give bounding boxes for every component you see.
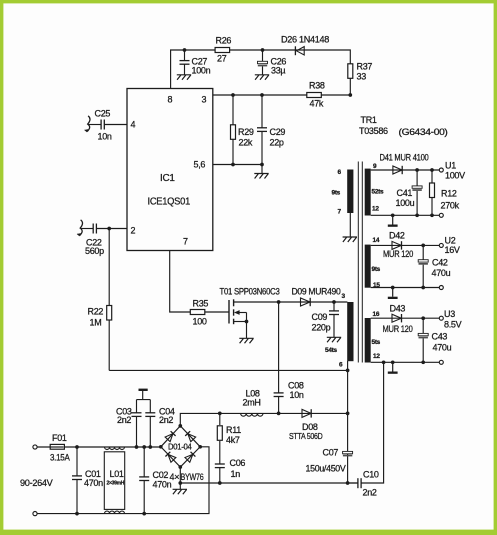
svg-text:D41 MUR 4100: D41 MUR 4100 <box>380 153 429 163</box>
svg-text:C42: C42 <box>432 258 448 268</box>
wire primary pin6 down <box>347 361 349 483</box>
svg-text:8.5V: 8.5V <box>444 320 462 330</box>
wire pin7 gate drive <box>170 251 229 313</box>
resistor R22 <box>88 229 112 371</box>
wire primary return <box>109 369 347 371</box>
svg-text:22p: 22p <box>270 138 284 148</box>
svg-text:5,6: 5,6 <box>194 160 206 170</box>
capacitor C07 <box>306 448 353 485</box>
svg-text:10n: 10n <box>98 132 112 142</box>
node U1 100V <box>445 161 465 181</box>
diode D26 1N4148 <box>281 35 329 56</box>
svg-text:C07: C07 <box>323 448 339 458</box>
transformer secondary 52ts <box>365 163 384 216</box>
inductor L08 <box>241 389 263 417</box>
svg-text:470u: 470u <box>432 268 451 278</box>
svg-text:R11: R11 <box>226 425 241 435</box>
svg-text:R26: R26 <box>216 36 232 46</box>
svg-text:D26 1N4148: D26 1N4148 <box>281 35 329 45</box>
svg-text:IC1: IC1 <box>160 173 175 184</box>
node junction drain/C08 <box>277 300 281 304</box>
svg-text:U3: U3 <box>444 309 455 319</box>
node junction pin2/R22 <box>107 227 111 231</box>
wire output2 bottom <box>371 287 440 289</box>
node U2 16V <box>445 236 460 256</box>
svg-text:90-264V: 90-264V <box>20 478 53 488</box>
terminal input L <box>33 445 37 449</box>
ground of output3 <box>388 360 398 373</box>
terminal U2 plus <box>439 243 443 247</box>
svg-text:3: 3 <box>202 95 207 105</box>
transformer TR1 core <box>358 115 448 363</box>
node U3 8.5V <box>444 309 462 330</box>
terminal U2 minus <box>439 286 443 290</box>
capacitor C27 <box>180 48 211 75</box>
wire output3 top <box>371 317 440 319</box>
wire output3 bottom <box>371 361 440 363</box>
svg-text:C29: C29 <box>270 127 286 137</box>
svg-text:100: 100 <box>193 317 207 327</box>
svg-text:4×: 4× <box>170 472 180 482</box>
svg-text:4k7: 4k7 <box>226 435 240 445</box>
svg-text:MUR 120: MUR 120 <box>383 249 413 259</box>
wire drain rail <box>234 301 348 303</box>
svg-text:C25: C25 <box>95 109 111 119</box>
resistor R11 <box>217 412 241 445</box>
wire C03-C04 link <box>137 391 151 400</box>
svg-text:10n: 10n <box>290 390 304 400</box>
svg-text:D01-04: D01-04 <box>168 443 192 452</box>
svg-text:ICE1QS01: ICE1QS01 <box>148 197 191 208</box>
chassis node at C25 <box>85 116 91 132</box>
svg-text:470u: 470u <box>433 343 452 353</box>
capacitor C03 <box>116 400 142 449</box>
svg-text:C10: C10 <box>363 470 379 480</box>
capacitor C08 <box>274 302 304 415</box>
op-amp IC1 ICE1QS01 box <box>127 89 213 251</box>
svg-text:D42: D42 <box>389 231 405 241</box>
diode D43 MUR 120 <box>383 304 413 335</box>
transformer secondary 5ts <box>365 311 381 363</box>
wire snubber rail <box>180 413 347 426</box>
node junction return/output3 <box>382 360 386 364</box>
ground of C09 <box>327 337 341 342</box>
svg-text:16: 16 <box>373 311 380 318</box>
transformer primary winding 54ts <box>325 293 354 369</box>
svg-text:2: 2 <box>131 226 136 236</box>
wire output2 top <box>371 244 440 246</box>
capacitor C41 <box>396 168 423 217</box>
svg-text:14: 14 <box>373 237 380 244</box>
frame <box>0 0 497 3</box>
svg-text:47k: 47k <box>310 99 324 109</box>
resistor R35 <box>190 299 208 327</box>
svg-text:L01: L01 <box>110 469 124 479</box>
diode D41 MUR 4100 <box>380 153 429 175</box>
svg-text:12: 12 <box>372 206 379 213</box>
svg-text:R22: R22 <box>88 307 104 317</box>
svg-text:9ts: 9ts <box>372 266 381 273</box>
transistor T01 SPP03N60C3 <box>220 287 280 339</box>
wire mains bottom <box>37 447 209 514</box>
transformer secondary 9ts <box>365 237 381 289</box>
terminal U1 minus <box>439 213 443 217</box>
svg-text:D09 MUR490: D09 MUR490 <box>292 287 341 297</box>
terminal U3 plus <box>439 316 443 320</box>
terminal input N <box>33 511 37 515</box>
node junction rail/pin6 <box>346 412 350 416</box>
resistor R12 <box>430 168 460 217</box>
capacitor C04 <box>145 400 175 449</box>
fuse F01 3.15A <box>50 433 70 463</box>
capacitor C43 <box>418 316 451 364</box>
ground of T01 source <box>239 338 253 343</box>
svg-text:C06: C06 <box>230 458 246 468</box>
svg-text:2n2: 2n2 <box>117 415 131 425</box>
wire output1 top <box>371 169 440 171</box>
capacitor C01 <box>72 445 103 515</box>
svg-text:D43: D43 <box>390 304 406 314</box>
svg-text:5ts: 5ts <box>372 339 381 346</box>
svg-text:U2: U2 <box>445 236 456 246</box>
svg-text:22k: 22k <box>239 138 253 148</box>
capacitor C25 <box>89 109 128 142</box>
capacitor C10 <box>348 470 379 498</box>
resistor R26 <box>215 36 231 64</box>
transformer aux winding 9ts <box>332 169 354 216</box>
svg-text:C09: C09 <box>312 312 328 322</box>
diode D09 MUR490 <box>292 287 341 307</box>
svg-text:100u: 100u <box>396 198 415 208</box>
svg-text:C02: C02 <box>153 470 169 480</box>
capacitor C29 <box>257 93 285 173</box>
svg-text:C41: C41 <box>397 188 413 198</box>
wire output1 bottom <box>371 214 440 216</box>
ground of output2 <box>388 286 398 299</box>
svg-text:3.15A: 3.15A <box>50 453 70 463</box>
capacitor C22 <box>81 224 127 257</box>
svg-text:R35: R35 <box>193 299 209 309</box>
capacitor C26 <box>258 48 287 75</box>
svg-text:BYW76: BYW76 <box>181 472 204 482</box>
ground earth bar <box>139 389 148 391</box>
svg-text:9ts: 9ts <box>332 190 341 197</box>
diode bridge D01-04 4x BYW76 <box>159 424 204 482</box>
ground of C29 <box>254 174 268 179</box>
svg-text:2n2: 2n2 <box>159 415 173 425</box>
wire DC minus <box>180 467 358 489</box>
svg-text:C43: C43 <box>432 332 448 342</box>
svg-text:R12: R12 <box>441 189 457 199</box>
svg-text:MUR 120: MUR 120 <box>383 324 413 334</box>
svg-text:33: 33 <box>357 72 367 82</box>
svg-text:4: 4 <box>131 120 136 130</box>
wire C10 to secondary return <box>361 362 384 483</box>
svg-text:F01: F01 <box>52 433 67 443</box>
node junction R37/R38 <box>348 93 352 97</box>
ground of output1 <box>388 213 398 226</box>
svg-text:12: 12 <box>373 353 380 360</box>
svg-text:C08: C08 <box>288 381 304 391</box>
capacitor C42 <box>418 244 450 290</box>
svg-text:100V: 100V <box>445 171 465 181</box>
svg-text:220p: 220p <box>312 323 331 333</box>
svg-text:STTA 506D: STTA 506D <box>289 431 323 441</box>
wire pin8 to VCC rail <box>171 50 351 95</box>
wire pin3 feedback <box>213 94 350 96</box>
svg-text:54ts: 54ts <box>325 347 337 354</box>
svg-text:7: 7 <box>183 237 188 247</box>
chassis node at C22 <box>77 220 83 236</box>
diode D08 STTA 506D <box>289 409 323 441</box>
svg-text:(G6434-00): (G6434-00) <box>399 127 448 137</box>
resistor R37 <box>348 62 373 82</box>
ground of bridge <box>173 489 187 494</box>
node junction bridge minus <box>178 481 182 485</box>
svg-text:27: 27 <box>217 54 227 64</box>
wire aux winding to ground <box>349 213 351 237</box>
wire pin5,6 <box>213 164 262 166</box>
svg-text:270k: 270k <box>441 201 460 211</box>
svg-text:TR1: TR1 <box>361 115 377 125</box>
svg-text:150u/450V: 150u/450V <box>306 464 346 474</box>
svg-text:1n: 1n <box>231 469 241 479</box>
svg-text:T01 SPP03N60C3: T01 SPP03N60C3 <box>220 287 280 297</box>
wire mains top <box>37 446 161 448</box>
node junction pin6/return <box>346 369 350 373</box>
inductor L01 2x39mH <box>104 447 124 514</box>
svg-text:2mH: 2mH <box>243 398 261 408</box>
svg-text:52ts: 52ts <box>372 189 384 196</box>
diode D42 MUR 120 <box>383 231 413 260</box>
svg-text:U1: U1 <box>445 161 456 171</box>
terminal U1 plus <box>439 168 443 172</box>
terminal U3 minus <box>439 360 443 364</box>
svg-text:T03586: T03586 <box>359 126 388 136</box>
svg-text:R29: R29 <box>238 127 254 137</box>
svg-text:8: 8 <box>168 95 173 105</box>
svg-text:470n: 470n <box>84 478 103 488</box>
svg-text:16V: 16V <box>445 245 460 255</box>
svg-text:R37: R37 <box>357 62 373 72</box>
resistor R29 <box>231 93 254 166</box>
capacitor C09 <box>312 300 340 337</box>
capacitor C02 <box>139 445 171 515</box>
svg-text:1M: 1M <box>90 318 102 328</box>
svg-text:33µ: 33µ <box>271 66 285 76</box>
capacitor C06 <box>215 441 246 485</box>
svg-text:100n: 100n <box>192 66 211 76</box>
svg-text:R38: R38 <box>309 81 325 91</box>
ground of C26 <box>255 75 269 80</box>
ground of C27 <box>177 75 191 80</box>
svg-text:2×39mH: 2×39mH <box>107 481 125 487</box>
resistor R38 <box>307 81 325 109</box>
ground of aux winding <box>343 237 357 242</box>
svg-text:560p: 560p <box>85 246 104 256</box>
svg-text:2n2: 2n2 <box>363 488 377 498</box>
